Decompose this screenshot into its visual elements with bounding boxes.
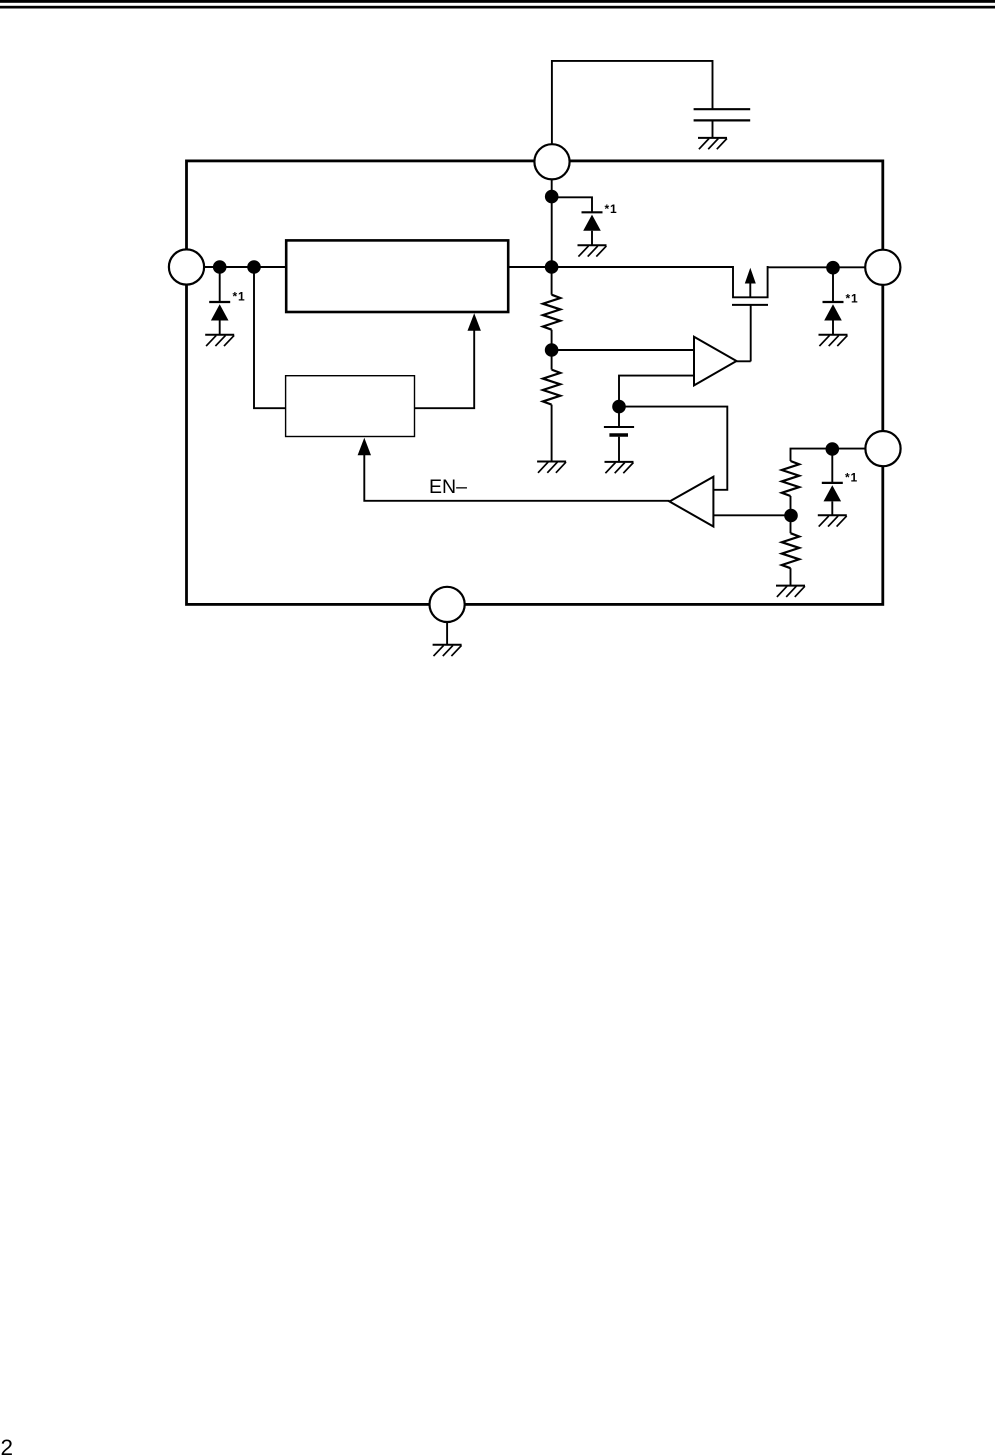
wire: tap to error amp bbox=[552, 349, 694, 351]
node dot (left clamp tap) bbox=[213, 260, 227, 274]
ground (left pin clamp diode) bbox=[205, 335, 234, 346]
wire: reference to error amp input bbox=[619, 376, 694, 407]
svg-text:*1: *1 bbox=[846, 292, 859, 306]
node dot (feedback tap) bbox=[247, 260, 261, 274]
svg-text:EN–: EN– bbox=[429, 476, 467, 498]
block U1 (regulator control block) bbox=[286, 240, 508, 312]
ground (reference bypass cap) bbox=[605, 462, 634, 473]
resistor R3 (EN divider upper) bbox=[782, 461, 799, 496]
node dot (divider top) bbox=[545, 260, 559, 274]
ground (EN pin clamp diode) bbox=[818, 515, 847, 526]
resistor R4 (EN divider lower) bbox=[782, 533, 799, 568]
wire: branch to VIN clamp diode bbox=[552, 197, 592, 212]
pin EN (right lower) bbox=[865, 431, 900, 466]
arrow into block2 bbox=[358, 438, 371, 456]
wire: divider stem bbox=[551, 267, 553, 295]
wire: MOSFET drain to output pin bbox=[768, 266, 866, 268]
node dot (output clamp tap) bbox=[826, 261, 840, 275]
node dot (EN divider tap) bbox=[784, 509, 798, 523]
arrow into block1 bbox=[468, 313, 481, 331]
diode *1 (EN pin clamp) bbox=[831, 449, 833, 483]
pin (left) bbox=[169, 249, 204, 284]
wire: reference node to EN comparator bbox=[619, 407, 727, 490]
wire: EN pin to divider bbox=[791, 449, 866, 461]
wire: R1 to tap bbox=[551, 330, 553, 370]
wire: EN- signal to block2 bbox=[364, 455, 669, 501]
node dot (divider tap) bbox=[545, 343, 559, 357]
transistor M1 (PMOS pass element) bbox=[732, 266, 768, 361]
node dot (VIN stem) bbox=[545, 190, 559, 204]
wire: block2 output up to block1 bbox=[415, 330, 475, 408]
ground (EN divider) bbox=[776, 586, 805, 597]
diode *1 (left pin clamp) bbox=[219, 267, 221, 302]
node dot (EN pin node) bbox=[826, 442, 840, 456]
wire: GND pin stem bbox=[446, 622, 448, 645]
ground (GND pin) bbox=[433, 645, 462, 656]
ground (output clamp diode) bbox=[819, 335, 848, 346]
op-amp A1 (error amplifier) bbox=[694, 337, 737, 386]
resistor R2 (divider lower) bbox=[543, 370, 560, 405]
wire: feedback tap down to block2 bbox=[254, 267, 286, 408]
node dot (reference node) bbox=[612, 400, 626, 414]
svg-text:*1: *1 bbox=[233, 290, 246, 304]
ground (external cap) bbox=[698, 138, 727, 149]
wire: error amp output to gate bbox=[737, 360, 751, 362]
resistor R1 (divider upper) bbox=[543, 295, 560, 330]
wire: VIN pin stem down to rail bbox=[551, 179, 553, 267]
op-amp A2 (EN comparator) bbox=[670, 477, 714, 527]
svg-text:*1: *1 bbox=[605, 202, 618, 216]
capacitor C (external input cap) bbox=[694, 109, 751, 138]
svg-text:*1: *1 bbox=[845, 471, 858, 485]
pin GND (bottom) bbox=[430, 587, 465, 622]
wire: VIN rail from left pin to block1 bbox=[204, 266, 286, 268]
diode *1 (output clamp) bbox=[832, 268, 834, 302]
wire: R2 to ground bbox=[551, 405, 553, 462]
wire: rail from block1 to MOSFET bbox=[508, 266, 733, 268]
pin VOUT (right) bbox=[865, 250, 900, 285]
svg-text:2: 2 bbox=[1, 1435, 14, 1455]
ground (VIN clamp diode) bbox=[578, 245, 607, 256]
pin VIN (top) bbox=[534, 144, 569, 179]
capacitor (reference bypass) bbox=[604, 407, 634, 462]
block U2 (control logic block) bbox=[286, 376, 415, 437]
wire: R4 to ground bbox=[790, 568, 792, 585]
diode *1 (VIN clamp) bbox=[582, 212, 603, 245]
IC boundary bbox=[187, 161, 883, 605]
wire: EN comparator lower input bbox=[713, 514, 791, 516]
wire: R3 to tap bbox=[790, 496, 792, 533]
wire: external VIN lead up from top pin bbox=[552, 61, 713, 144]
ground (divider) bbox=[537, 462, 566, 473]
